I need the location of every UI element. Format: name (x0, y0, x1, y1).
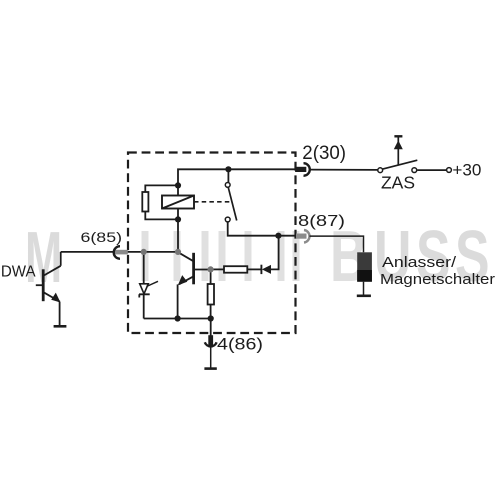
relay contact top (225, 183, 230, 188)
diode D1 (cathode left) (261, 265, 271, 274)
junction: contact branch on 30 line (225, 166, 231, 172)
svg-text:8(87): 8(87) (298, 213, 345, 230)
junction: resistor and 86 drop on bottom rail (208, 315, 214, 321)
svg-text:2(30): 2(30) (302, 143, 346, 164)
wire: resistor to base node (211, 268, 224, 270)
junction: coil bottom node (175, 216, 181, 222)
wire: 87 to solenoid (310, 236, 364, 252)
wire: zener branch bottom (143, 294, 145, 318)
wire: below 86 terminal to ground (210, 347, 212, 369)
wire: 86 drop through border (210, 319, 212, 336)
node +30 open circle (447, 168, 452, 173)
resistor R2 horizontal (base) (224, 266, 247, 273)
junction: zener branch on 85 line (141, 249, 147, 255)
junction: collector node on 85 line (175, 249, 181, 255)
wire: DWA collector to 85 (60, 252, 62, 266)
wire: coil top to terminal 30 line (178, 169, 297, 195)
wire: parallel resistor top loop (145, 185, 178, 192)
relay contact bottom (225, 217, 230, 222)
transistor Q1 (internal) (178, 252, 211, 285)
watermark (25, 217, 490, 298)
wire: 30 line to ZAS (310, 169, 378, 171)
wire: coil bottom down to node (177, 209, 179, 252)
svg-text:DWA: DWA (1, 264, 36, 281)
terminal 2(30) (295, 163, 310, 176)
dashed relay module box (128, 153, 296, 334)
wire: base resistor drop bottom (210, 305, 212, 319)
svg-text:6(85): 6(85) (81, 229, 123, 245)
wire: 87 junction down to diode chain (270, 236, 278, 270)
svg-text:4(86): 4(86) (217, 335, 263, 354)
wire: solenoid to ground (363, 282, 365, 296)
wire: parallel resistor bottom loop (145, 212, 178, 220)
svg-text:ZAS: ZAS (381, 173, 415, 193)
wire: switch top branch (227, 169, 229, 182)
junction: base node (208, 266, 214, 272)
ZAS actuator symbol (394, 136, 403, 165)
transistor Q2 DWA (36, 266, 61, 303)
solenoid box (Anlasser/Magnetschalter) (357, 252, 372, 281)
mechanical link (dashed) (194, 201, 232, 203)
zener diode Z1 (139, 281, 158, 297)
wire: bottom rail (144, 318, 211, 320)
junction: diode branch on 87 line (275, 233, 281, 239)
resistor R1 parallel to coil (142, 192, 148, 212)
switch ZAS (378, 160, 417, 172)
wire: diode to resistor (247, 268, 261, 270)
wire: 85 line (61, 251, 178, 253)
relay contact lever (228, 188, 236, 221)
wire: ZAS to +30 (417, 169, 446, 171)
ground under 86 (204, 367, 216, 370)
junction: emitter on bottom rail (175, 315, 181, 321)
svg-text:+30: +30 (452, 161, 481, 180)
wire: switch bottom to 87 terminal (228, 222, 296, 236)
resistor R3 vertical (208, 284, 214, 305)
terminal 6(85) (114, 246, 128, 259)
ground under solenoid (357, 294, 371, 297)
relay coil K1 (162, 196, 194, 209)
terminal 8(87) (296, 230, 310, 243)
wire: DWA emitter down (59, 302, 61, 327)
wire: zener branch top (143, 252, 145, 284)
svg-text:Anlasser/: Anlasser/ (382, 254, 457, 271)
svg-text:Magnetschalter: Magnetschalter (380, 271, 495, 288)
terminal 4(86) (205, 335, 217, 347)
junction: coil top node (175, 182, 181, 188)
wire: emitter down (177, 284, 179, 318)
wire: base resistor drop top (210, 269, 212, 284)
ground under DWA (54, 325, 67, 328)
